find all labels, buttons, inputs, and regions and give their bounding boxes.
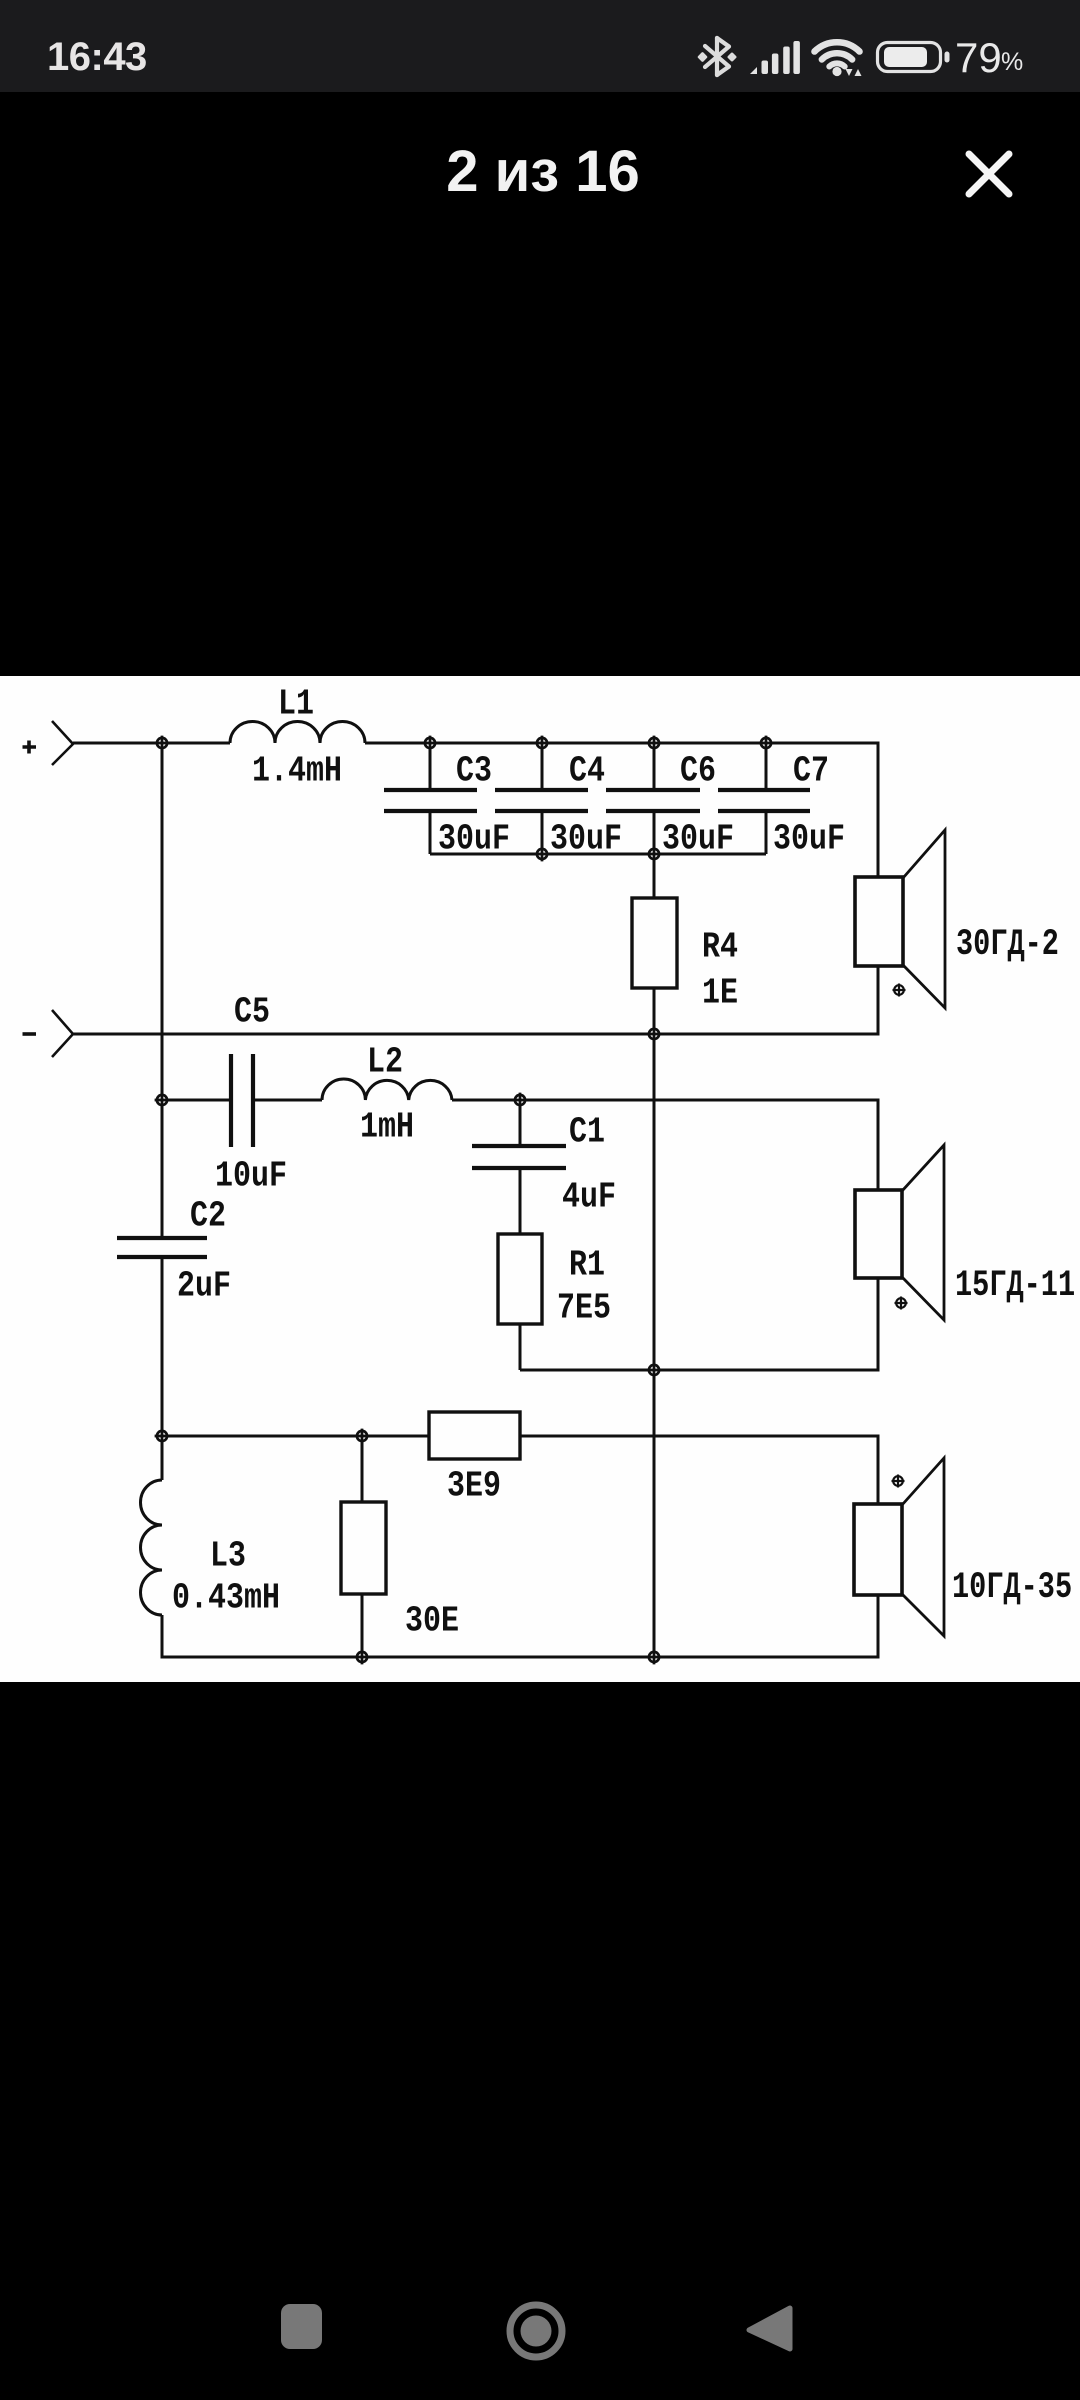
svg-text:1mH: 1mH [360, 1106, 414, 1147]
svg-text:L1: L1 [278, 683, 314, 724]
svg-text:R1: R1 [569, 1244, 605, 1285]
svg-text:15ГД-11: 15ГД-11 [955, 1264, 1075, 1307]
svg-text:C4: C4 [569, 750, 605, 791]
svg-text:R4: R4 [702, 926, 738, 967]
svg-text:4uF: 4uF [562, 1176, 616, 1217]
svg-text:C7: C7 [793, 750, 829, 791]
svg-text:30ГД-2: 30ГД-2 [956, 923, 1059, 966]
svg-text:C1: C1 [569, 1111, 605, 1152]
svg-text:30E: 30E [405, 1600, 459, 1641]
svg-text:30uF: 30uF [662, 818, 734, 859]
svg-text:30uF: 30uF [773, 818, 845, 859]
svg-text:7E5: 7E5 [557, 1287, 611, 1328]
svg-text:%: % [1001, 48, 1023, 76]
svg-text:30uF: 30uF [438, 818, 510, 859]
svg-text:1E: 1E [702, 972, 738, 1013]
svg-text:79: 79 [955, 34, 1002, 81]
svg-text:3E9: 3E9 [447, 1465, 501, 1506]
svg-text:30uF: 30uF [550, 818, 622, 859]
svg-text:10uF: 10uF [215, 1155, 287, 1196]
svg-text:C2: C2 [190, 1195, 226, 1236]
svg-text:0.43mH: 0.43mH [172, 1577, 280, 1618]
svg-text:C6: C6 [680, 750, 716, 791]
svg-text:10ГД-35: 10ГД-35 [952, 1566, 1072, 1609]
svg-text:2uF: 2uF [177, 1265, 231, 1306]
svg-text:C5: C5 [234, 991, 270, 1032]
svg-text:1.4mH: 1.4mH [252, 750, 342, 791]
svg-text:L2: L2 [367, 1041, 403, 1082]
svg-text:C3: C3 [456, 750, 492, 791]
svg-text:L3: L3 [210, 1535, 246, 1576]
